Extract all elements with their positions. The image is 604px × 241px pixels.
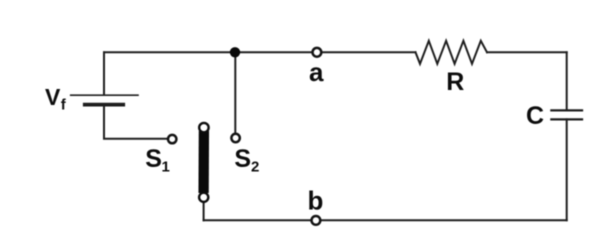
svg-text:a: a — [309, 57, 324, 87]
svg-text:C: C — [526, 102, 544, 130]
svg-text:f: f — [61, 96, 67, 113]
svg-text:2: 2 — [251, 159, 259, 176]
svg-text:1: 1 — [162, 159, 170, 176]
svg-text:V: V — [45, 84, 61, 110]
svg-text:S: S — [234, 145, 251, 173]
svg-text:b: b — [308, 185, 324, 215]
svg-text:R: R — [446, 68, 464, 96]
svg-text:S: S — [145, 145, 162, 173]
